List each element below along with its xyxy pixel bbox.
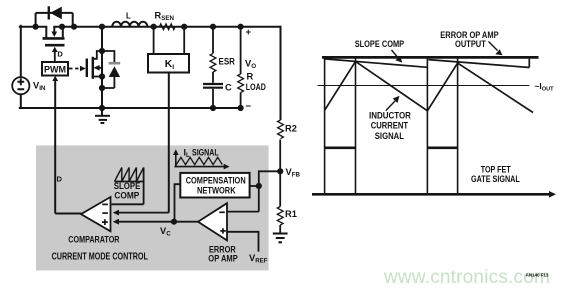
svg-text:SLOPE COMP: SLOPE COMP (355, 39, 404, 49)
capacitor branch: resistor ESR (210, 27, 235, 72)
svg-text:COMPENSATION: COMPENSATION (186, 175, 246, 185)
junction dots switch node column (99, 48, 105, 54)
svg-text:D: D (57, 50, 63, 59)
svg-text:~IOUT: ~IOUT (535, 81, 555, 93)
compensation network box (180, 173, 249, 198)
svg-text:INDUCTOR: INDUCTOR (369, 111, 411, 121)
arrow error op amp output (489, 42, 503, 56)
wire switch node vertical (101, 27, 103, 108)
wire comparator output to PWM (D wire) (52, 76, 81, 214)
error op amp output line (thick) (322, 56, 539, 59)
wire KI left lead (153, 27, 155, 54)
wire R2 to VFB (279, 140, 281, 172)
wire Q1 left stub (45, 27, 47, 38)
op-amp U2 error amplifier (198, 203, 227, 240)
inductor current waveform (325, 61, 533, 112)
svg-text:NETWORK: NETWORK (197, 186, 236, 196)
gate pulse tops (325, 147, 458, 150)
wire bottom rail (20, 107, 242, 109)
resistor RLOAD (238, 27, 244, 108)
node VFB (277, 168, 283, 174)
wire KI output (IL signal) (168, 73, 170, 213)
svg-text:CURRENT: CURRENT (371, 120, 409, 130)
PWM block (42, 62, 68, 76)
control block shaded region (36, 145, 269, 270)
resistor RSEN (154, 24, 185, 30)
wire comp network left lead to VC (175, 184, 181, 222)
svg-text:SIGNAL: SIGNAL (192, 148, 219, 158)
svg-text:L: L (126, 11, 131, 20)
svg-text:+: + (246, 27, 252, 38)
wire dashed gate drive to bottom FET (69, 66, 86, 72)
svg-text:VFB: VFB (286, 167, 301, 179)
slope compensation sawtooth icon (115, 168, 144, 205)
ground (power stage) (95, 108, 110, 123)
slope comp waveform (325, 59, 530, 68)
wire Q1 right stub (62, 27, 64, 38)
svg-text:C: C (225, 82, 232, 92)
svg-text:OP AMP: OP AMP (208, 254, 238, 264)
gate signal baseline with arrow (312, 191, 556, 198)
svg-text:R2: R2 (285, 124, 297, 134)
IL signal icon with arrows (173, 149, 230, 169)
transistor Q2 bottom N-FET (87, 51, 102, 79)
wire left rail lower (20, 94, 22, 108)
wire feedback column from VO rail (280, 26, 282, 120)
waveform verticals (325, 57, 458, 194)
svg-text:SIGNAL: SIGNAL (375, 131, 404, 141)
capacitor C (203, 72, 232, 108)
wire top rail left segment (20, 26, 47, 28)
node VC (171, 219, 177, 225)
wire diode left riser (35, 13, 37, 27)
wire error amp output to comparator + input (113, 219, 199, 225)
arrow slope comp (392, 50, 403, 63)
voltage source VIN (12, 77, 29, 94)
wire diode top (36, 13, 73, 27)
ground (feedback divider) (273, 234, 288, 243)
wire R1 to ground (279, 225, 281, 233)
svg-text:PWM: PWM (44, 64, 66, 74)
transistor Q1 top P-FET (43, 27, 65, 46)
svg-text:GATE SIGNAL: GATE SIGNAL (471, 174, 520, 184)
svg-text:COMPARATOR: COMPARATOR (68, 234, 119, 245)
svg-text:VO: VO (245, 59, 256, 71)
junction dots bottom rail (210, 105, 216, 111)
svg-text:R1: R1 (285, 209, 297, 219)
wire top rail right segment (54, 26, 280, 28)
svg-text:R: R (247, 72, 254, 82)
watermark (384, 267, 550, 289)
resistor R2 (278, 120, 284, 139)
svg-text:OUTPUT: OUTPUT (455, 39, 486, 49)
resistor R1 (279, 171, 281, 206)
wire Q1 gate lead with up arrow (52, 47, 58, 62)
junction dots top rail (33, 24, 39, 30)
svg-text:LOAD: LOAD (246, 82, 266, 92)
IOUT average line (318, 85, 530, 87)
wire KI right lead (183, 27, 185, 54)
diode D2 body diode of Q2 (102, 51, 120, 88)
wire comp network right lead (250, 185, 259, 187)
wire slope comp to comparator top input (112, 203, 144, 205)
svg-text:–: – (246, 101, 252, 112)
svg-text:CURRENT MODE CONTROL: CURRENT MODE CONTROL (52, 252, 148, 263)
node comp network junction (256, 183, 262, 189)
wire VFB to compensation/error amp (227, 171, 281, 211)
svg-text:AN140 F13: AN140 F13 (526, 273, 549, 279)
op-amp U1 comparator (81, 197, 111, 231)
wire IL signal into comparator - input (113, 210, 169, 216)
current sense amp KI (148, 27, 189, 73)
wire error amp + input to VREF (227, 232, 259, 252)
inductor L (112, 22, 147, 27)
diode D1 (across top FET) (36, 6, 73, 26)
svg-text:COMP: COMP (114, 190, 139, 200)
svg-text:ESR: ESR (219, 57, 236, 67)
arrow inductor current signal (386, 96, 400, 111)
svg-text:RSEN: RSEN (155, 11, 175, 23)
svg-text:D: D (57, 175, 63, 184)
wire left rail upper (20, 26, 22, 77)
svg-text:VIN: VIN (33, 81, 46, 93)
